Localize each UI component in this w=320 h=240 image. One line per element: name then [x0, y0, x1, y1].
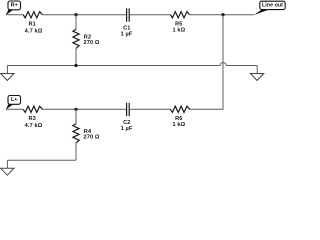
- svg-text:R+: R+: [11, 3, 18, 9]
- node: junction dot R3/R4/C2: [74, 108, 77, 111]
- wire: R3 to C2: [42, 108, 126, 110]
- wire: top ground rail (right of hop): [226, 65, 257, 67]
- wire: node down to R2: [75, 15, 77, 29]
- wire: R+ input to R1: [6, 14, 23, 16]
- wire: bottom ground rail: [7, 159, 76, 161]
- ground (top right): [250, 74, 263, 81]
- capacitor C1: [121, 8, 133, 37]
- svg-text:1 kΩ: 1 kΩ: [173, 122, 186, 128]
- resistor R6: [170, 106, 189, 128]
- wire: C1 to R5: [130, 14, 171, 16]
- wire: top ground rail (left of hop): [7, 65, 220, 67]
- input flag R+: [6, 1, 21, 15]
- svg-text:1 µF: 1 µF: [121, 126, 133, 132]
- svg-text:R6: R6: [175, 116, 182, 122]
- node: junction dot R1/R2/C1: [74, 13, 77, 16]
- svg-text:1 kΩ: 1 kΩ: [173, 27, 186, 33]
- wire: R6 to vertical tie corner: [190, 108, 224, 110]
- svg-text:270 Ω: 270 Ω: [84, 134, 100, 140]
- svg-text:R5: R5: [175, 21, 182, 27]
- svg-text:C2: C2: [123, 120, 130, 126]
- resistor R3: [23, 106, 43, 129]
- svg-text:Line out: Line out: [262, 3, 283, 9]
- ground (bottom left): [1, 168, 14, 175]
- capacitor C2: [121, 103, 133, 132]
- svg-text:R1: R1: [29, 22, 36, 28]
- wire: rail right drop: [256, 66, 258, 74]
- wire: R4 to bottom ground rail: [75, 143, 77, 160]
- wire: rail left drop: [6, 66, 8, 74]
- resistor R2: [73, 29, 100, 48]
- wire: C2 to R6: [130, 108, 171, 110]
- svg-text:270 Ω: 270 Ω: [84, 40, 100, 46]
- wire: node down to R4: [75, 109, 77, 123]
- resistor R4: [73, 124, 100, 143]
- svg-text:4.7 kΩ: 4.7 kΩ: [25, 123, 43, 129]
- wire: L+ input to R3: [6, 108, 23, 110]
- svg-text:R3: R3: [29, 116, 36, 122]
- wire: R2 to ground rail: [75, 48, 77, 65]
- resistor R5: [170, 12, 189, 34]
- wire: vertical tie from top output down to bottom output: [222, 15, 224, 110]
- wire: hop over vertical tie: [220, 63, 226, 66]
- wire: bottom rail left drop: [6, 160, 8, 168]
- svg-text:1 µF: 1 µF: [121, 32, 133, 38]
- svg-text:4.7 kΩ: 4.7 kΩ: [25, 28, 43, 34]
- ground (top left): [1, 74, 14, 81]
- wire: R1 to C1: [42, 14, 126, 16]
- resistor R1: [23, 12, 43, 35]
- input flag L+: [6, 96, 21, 110]
- svg-text:C1: C1: [123, 25, 130, 31]
- node: junction dot R2/ground rail: [74, 64, 77, 67]
- node: junction dot line-out tie: [221, 13, 224, 16]
- svg-text:L+: L+: [11, 97, 17, 103]
- wire: R5 to Line out: [190, 14, 254, 16]
- output flag Line out: [254, 1, 285, 15]
